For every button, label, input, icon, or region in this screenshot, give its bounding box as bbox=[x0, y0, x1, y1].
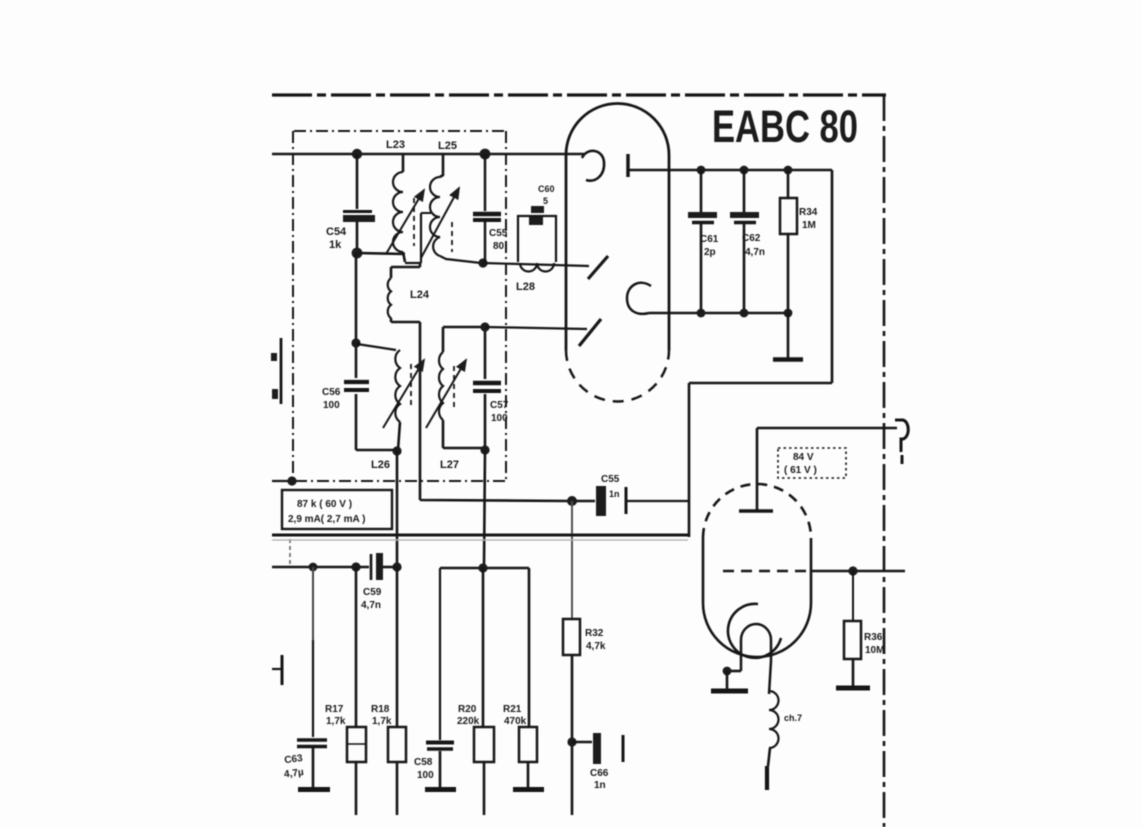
svg-text:470k: 470k bbox=[504, 716, 527, 727]
svg-text:C66: C66 bbox=[590, 768, 609, 779]
electrode cathode hook 2 bbox=[627, 283, 651, 314]
tube V2 triode envelope bbox=[703, 484, 811, 657]
tube V1 EABC80 envelope bbox=[566, 104, 669, 402]
node C62 top bbox=[740, 166, 749, 175]
label R18 bbox=[371, 704, 392, 727]
svg-text:R36: R36 bbox=[864, 632, 883, 643]
svg-text:EABC 80: EABC 80 bbox=[712, 101, 858, 152]
wire L23 bottom jog bbox=[405, 262, 421, 264]
node C54 bottom bbox=[352, 248, 363, 259]
svg-text:L26: L26 bbox=[371, 459, 390, 471]
wire AM bus left bbox=[272, 566, 369, 569]
capacitor C54 bbox=[343, 154, 375, 249]
electrode grid dashed V2 bbox=[723, 570, 810, 572]
svg-text:4,7n: 4,7n bbox=[745, 247, 765, 258]
inductor L28 bbox=[518, 216, 556, 272]
inductor L25 (adjustable) bbox=[421, 154, 459, 258]
wire anode to RC network bbox=[629, 169, 832, 172]
svg-text:2p: 2p bbox=[704, 247, 716, 258]
electrode cathode circle V2 bbox=[728, 604, 781, 658]
label R34 bbox=[799, 207, 818, 231]
left edge cut component lower bbox=[272, 655, 282, 685]
electrode cathode hook 1 bbox=[582, 151, 604, 181]
label C56 bbox=[322, 387, 341, 411]
label L25 bbox=[438, 140, 457, 152]
frame top dash-dot border bbox=[272, 93, 886, 96]
svg-text:C61: C61 bbox=[700, 234, 719, 245]
wire L25 center tap vertical bbox=[421, 213, 431, 263]
label C59 bbox=[361, 587, 382, 611]
electrode heater arch V2 bbox=[741, 624, 771, 694]
svg-text:L24: L24 bbox=[410, 289, 430, 301]
resistor R18 bbox=[388, 567, 406, 815]
label R36 bbox=[864, 632, 884, 656]
svg-text:220k: 220k bbox=[457, 716, 480, 727]
node audio takeoff bbox=[567, 496, 577, 506]
label L26 bbox=[371, 459, 390, 471]
annotation box 87k bbox=[282, 490, 392, 529]
inductor L27 (adjustable) bbox=[426, 327, 485, 448]
node x356 bbox=[351, 562, 360, 571]
label R21 bbox=[503, 704, 527, 727]
svg-text:R18: R18 bbox=[371, 704, 390, 715]
wire to diode plate 1 bbox=[483, 263, 589, 266]
wire secondary down to AM bus bbox=[484, 450, 485, 567]
svg-text:R34: R34 bbox=[799, 207, 818, 218]
label L28 bbox=[516, 281, 535, 293]
svg-text:ch.7: ch.7 bbox=[784, 713, 802, 723]
label L27 bbox=[440, 459, 459, 471]
capacitor C59 bbox=[371, 553, 397, 580]
svg-text:R32: R32 bbox=[585, 628, 604, 639]
capacitor C55b audio coupling bbox=[570, 486, 689, 516]
node L26 bottom bbox=[392, 446, 401, 455]
left edge cut component upper bbox=[271, 338, 281, 404]
wire detector output vertical bbox=[396, 451, 399, 565]
svg-text:R20: R20 bbox=[458, 704, 477, 715]
capacitor C66 bbox=[572, 733, 623, 764]
svg-text:C63: C63 bbox=[284, 753, 304, 766]
wire W1 top horizontal bbox=[272, 153, 584, 156]
label ch bbox=[784, 713, 802, 723]
bus AVC horizontal bbox=[272, 535, 689, 540]
resistor R36 bbox=[844, 571, 861, 686]
svg-text:L23: L23 bbox=[386, 139, 405, 151]
label R20 bbox=[457, 704, 480, 727]
node AF out bbox=[567, 737, 576, 746]
wire audio down bbox=[571, 501, 573, 619]
svg-text:1,7k: 1,7k bbox=[326, 716, 346, 727]
inductor L26 (adjustable) bbox=[357, 344, 424, 450]
node C61 bottom bbox=[697, 309, 706, 318]
wire C63 branch bbox=[312, 567, 314, 640]
svg-text:1M: 1M bbox=[802, 220, 816, 231]
svg-text:100: 100 bbox=[491, 413, 508, 424]
label C55 bbox=[489, 228, 508, 252]
capacitor C56 bbox=[344, 253, 369, 450]
ground R36 bbox=[836, 686, 870, 691]
svg-text:L25: L25 bbox=[438, 140, 457, 152]
resistor R20 bbox=[474, 568, 494, 815]
resistor R34 bbox=[780, 170, 797, 313]
label L24 bbox=[410, 289, 430, 301]
label tube V1 bbox=[712, 101, 858, 152]
wire triode anode up bbox=[757, 428, 897, 510]
svg-text:1n: 1n bbox=[609, 489, 620, 499]
svg-text:L27: L27 bbox=[440, 459, 459, 471]
wire cathode 2 return bbox=[649, 312, 788, 315]
svg-text:C55: C55 bbox=[489, 228, 508, 239]
resistor R21 bbox=[519, 568, 537, 787]
svg-text:100: 100 bbox=[323, 400, 340, 411]
wire L25 bottom to diode bbox=[440, 256, 481, 263]
inductor L24 (coupling coil) bbox=[388, 263, 420, 322]
wire cathode left leg bbox=[729, 670, 741, 673]
svg-text:C58: C58 bbox=[414, 757, 433, 768]
node grid/R36 bbox=[848, 566, 857, 575]
wire ratio filter top bbox=[440, 567, 529, 570]
label L23 bbox=[386, 139, 405, 151]
label C63 bbox=[282, 753, 306, 780]
node cathode ground bbox=[723, 667, 732, 676]
wire grid out bbox=[810, 570, 905, 573]
svg-text:C57: C57 bbox=[490, 400, 509, 411]
svg-text:100: 100 bbox=[417, 770, 434, 781]
svg-text:R21: R21 bbox=[503, 704, 522, 715]
ground C58 bbox=[425, 787, 456, 792]
electrode diode plate 1 bbox=[588, 256, 608, 279]
electrode anode plate V2 bbox=[739, 509, 773, 512]
capacitor C63 bbox=[297, 740, 327, 787]
label C58 bbox=[414, 757, 434, 781]
electrode diode plate 2 bbox=[579, 319, 601, 346]
node L25/C55 bottom bbox=[478, 258, 487, 267]
capacitor C60 bbox=[529, 206, 544, 225]
svg-text:L28: L28 bbox=[516, 281, 535, 293]
node B (485,154) bbox=[480, 149, 491, 160]
node x483b bbox=[478, 563, 487, 572]
label C60 bbox=[538, 184, 555, 206]
wire C58 branch bbox=[439, 568, 441, 740]
svg-text:1,7k: 1,7k bbox=[372, 716, 392, 727]
ground C63 bbox=[298, 787, 330, 792]
svg-text:5: 5 bbox=[543, 196, 548, 206]
svg-text:C55: C55 bbox=[601, 474, 620, 485]
capacitor C61 bbox=[688, 170, 717, 313]
svg-text:84 V: 84 V bbox=[793, 452, 814, 463]
node A (357,154) bbox=[352, 149, 362, 159]
label C66 bbox=[590, 768, 609, 791]
svg-text:4,7n: 4,7n bbox=[361, 600, 381, 611]
capacitor C62 bbox=[730, 170, 759, 313]
frame right dash-dot border bbox=[883, 95, 886, 827]
svg-text:87 k ( 60 V ): 87 k ( 60 V ) bbox=[297, 499, 352, 510]
svg-text:C54: C54 bbox=[326, 226, 347, 238]
wire to L23 bottom bbox=[357, 253, 405, 254]
label C62 bbox=[742, 233, 765, 258]
capacitor C55 (on secondary top) bbox=[473, 154, 501, 261]
wire shield stub below bbox=[289, 539, 291, 565]
resistor R17 bbox=[347, 567, 366, 815]
wire L24 to audio node bbox=[420, 322, 570, 501]
label R17 bbox=[325, 704, 346, 727]
svg-text:C62: C62 bbox=[742, 233, 761, 244]
svg-text:2,9 mA( 2,7 mA ): 2,9 mA( 2,7 mA ) bbox=[288, 514, 365, 525]
node C57 top bbox=[480, 322, 489, 331]
svg-text:( 61 V ): ( 61 V ) bbox=[784, 465, 817, 476]
inductor L23 (adjustable) bbox=[386, 154, 424, 262]
label C57 bbox=[490, 400, 509, 424]
inductor ch cathode choke bbox=[767, 691, 779, 790]
label C55b bbox=[601, 474, 620, 499]
label R32 bbox=[585, 628, 606, 652]
svg-text:1k: 1k bbox=[329, 239, 342, 251]
wire to diode plate 2 bbox=[485, 327, 587, 329]
node C61 top bbox=[697, 166, 706, 175]
svg-text:1n: 1n bbox=[594, 780, 606, 791]
node R34 bottom bbox=[784, 309, 793, 318]
svg-text:80: 80 bbox=[493, 241, 505, 252]
label C54 bbox=[326, 226, 347, 251]
node C56 top bbox=[351, 338, 360, 347]
node C62 bottom bbox=[740, 309, 749, 318]
resistor R32 bbox=[563, 619, 580, 815]
wire output loop right bbox=[689, 170, 832, 537]
svg-text:4,7k: 4,7k bbox=[586, 641, 606, 652]
annotation 84V box dotted bbox=[778, 448, 846, 478]
svg-text:4,7µ: 4,7µ bbox=[283, 767, 304, 780]
svg-text:C59: C59 bbox=[363, 587, 382, 598]
connector pin symbol bbox=[895, 420, 908, 464]
electrode anode bar bbox=[626, 154, 630, 177]
node shield-ground junction bbox=[272, 476, 297, 485]
ground R21 bbox=[513, 787, 544, 792]
shield box dashed (IF transformer can) bbox=[293, 131, 508, 481]
ground cathode V2 bbox=[711, 671, 748, 691]
label C61 bbox=[700, 234, 719, 258]
capacitor C57 bbox=[473, 327, 501, 449]
svg-text:C56: C56 bbox=[322, 387, 341, 398]
capacitor C58 bbox=[426, 743, 454, 788]
svg-text:C60: C60 bbox=[538, 184, 555, 194]
node C57 bottom bbox=[480, 445, 489, 454]
wire L26 bottom bbox=[356, 449, 395, 452]
node x313 bbox=[309, 563, 318, 572]
svg-text:R17: R17 bbox=[325, 704, 344, 715]
node R34 top bbox=[784, 166, 793, 175]
svg-text:10M: 10M bbox=[865, 645, 884, 656]
ground detector return bbox=[773, 313, 803, 360]
node x397 bbox=[392, 562, 401, 571]
